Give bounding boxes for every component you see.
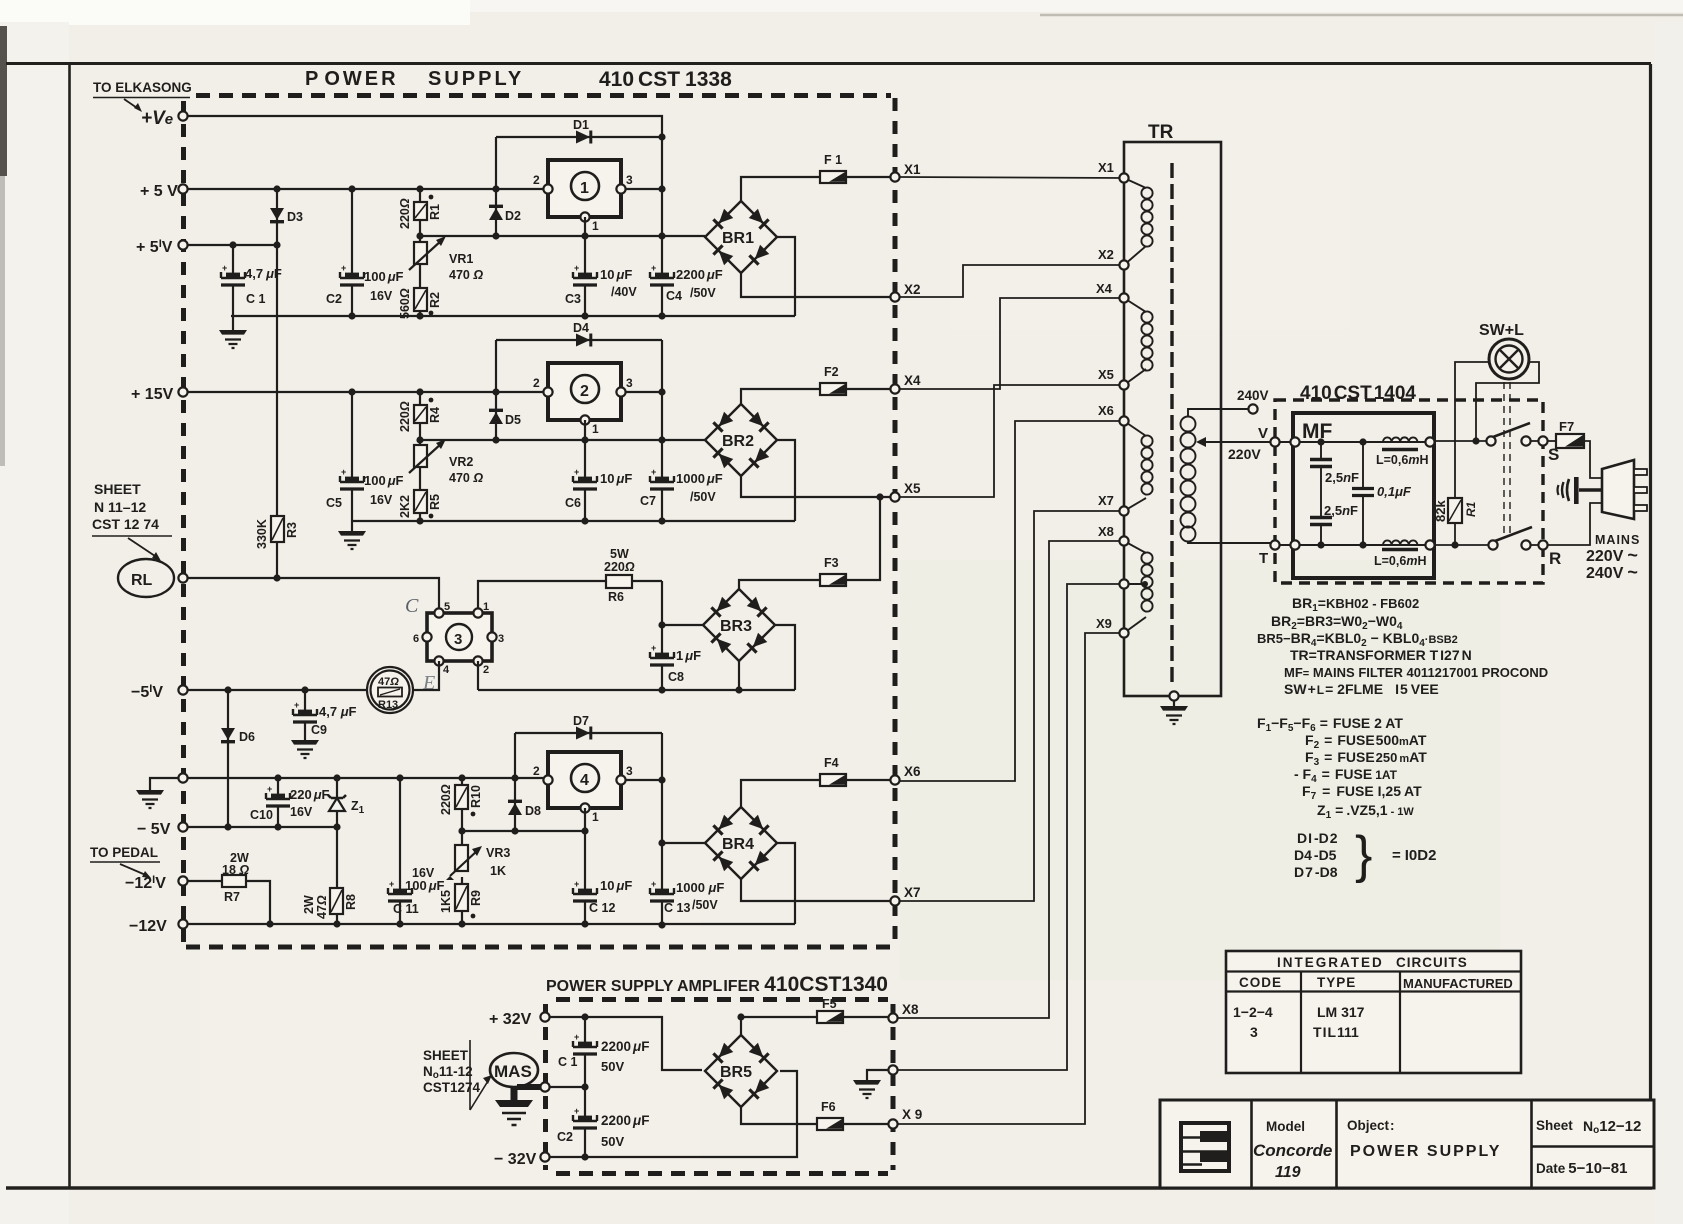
svg-text:220Ω: 220Ω (398, 401, 412, 432)
svg-text:4: 4 (580, 772, 589, 789)
node MAS (490, 1053, 550, 1125)
svg-text:4: 4 (443, 664, 450, 676)
svg-text:1K5: 1K5 (439, 890, 453, 913)
svg-text:R6: R6 (608, 590, 624, 604)
svg-text:2,5nF: 2,5nF (1324, 503, 1358, 518)
node V (1228, 425, 1280, 462)
svg-text:R2: R2 (428, 292, 442, 308)
svg-text:−12V: −12V (129, 918, 167, 935)
svg-text:TR: TR (1148, 122, 1174, 143)
svg-text:BR2: BR2 (722, 433, 754, 450)
wire BR3 DC- to rail (775, 625, 795, 690)
title block (1160, 1100, 1654, 1188)
wire BR3 DC+ stub (662, 624, 703, 626)
svg-text:X2: X2 (1098, 247, 1114, 262)
svg-text:C 1: C 1 (558, 1055, 578, 1069)
svg-text:CIRCUITS: CIRCUITS (1396, 955, 1468, 970)
svg-text:1000 μF: 1000 μF (676, 880, 724, 895)
wire D8 branch x515 (514, 733, 516, 831)
svg-text:F7: F7 (1559, 419, 1574, 434)
capacitor C8 (650, 643, 701, 684)
scan dark strip top-left (0, 26, 7, 176)
wire BR2 AC1 to F2 (741, 389, 895, 404)
node T (1259, 540, 1280, 567)
terminal X6 (890, 764, 921, 785)
svg-text:5: 5 (444, 601, 450, 613)
fuse F2 (820, 365, 846, 395)
TR winding W2 (1124, 298, 1153, 385)
svg-text:D4: D4 (573, 321, 589, 335)
svg-text:R4: R4 (428, 407, 442, 423)
svg-text:10μF: 10μF (600, 878, 632, 893)
svg-text:18 Ω: 18 Ω (222, 863, 249, 877)
svg-text:1μF: 1μF (676, 648, 701, 663)
plug earth lead (1558, 477, 1603, 504)
wire BR4 DC- to rail (777, 843, 795, 924)
svg-text:82k: 82k (1433, 500, 1448, 522)
wire X8 to TR (898, 541, 1124, 1018)
wire D4 bypass line (496, 339, 662, 341)
svg-text:C10: C10 (250, 808, 273, 822)
wire X6 to TR (900, 421, 1124, 781)
svg-text:C2: C2 (557, 1130, 573, 1144)
svg-text:560Ω: 560Ω (398, 288, 412, 319)
svg-text:TR=TRANSFORMER TI27N: TR=TRANSFORMER TI27N (1290, 647, 1472, 663)
resistor R10 220R (439, 778, 483, 831)
svg-text:100μF: 100μF (364, 473, 404, 488)
wire raw vertical x662 row4 (661, 733, 663, 925)
wire rail row2 (352, 520, 795, 522)
svg-text:16V: 16V (290, 805, 313, 819)
svg-text:D7: D7 (573, 714, 589, 728)
wire mid line (550, 1086, 585, 1088)
bridge BR5 (705, 1035, 777, 1107)
svg-text:C9: C9 (311, 723, 327, 737)
MF terminals (1290, 437, 1434, 549)
svg-text:1−2−4: 1−2−4 (1233, 1004, 1273, 1020)
resistor R1 82k (1433, 498, 1478, 545)
junction dots row1 (229, 133, 665, 319)
junction dots row3 (273, 574, 742, 693)
svg-text:CST 12 74: CST 12 74 (92, 516, 159, 532)
svg-text:Date5−10−81: Date5−10−81 (1536, 1160, 1628, 1177)
wire BR1 AC1 to F1 (741, 177, 895, 201)
ground terminal of main box (136, 773, 188, 808)
svg-text:D7-D8: D7-D8 (1294, 864, 1338, 880)
capacitor C5 (326, 392, 404, 531)
wire D7 bypass line (515, 732, 662, 734)
inductor L=0,6mH lower (1374, 540, 1426, 568)
node -12'V (125, 874, 188, 892)
svg-text:10μF: 10μF (600, 267, 632, 282)
wire BR1 DC- to rail (777, 237, 795, 316)
svg-text:X8: X8 (1098, 524, 1114, 539)
notes diode equivalence (1294, 826, 1436, 884)
svg-text:F5: F5 (822, 997, 837, 1011)
wire RL line (188, 578, 439, 613)
svg-text:+ 5IV: + 5IV (136, 238, 173, 256)
resistor R2 560R (398, 288, 442, 319)
svg-text:F2: F2 (824, 365, 839, 379)
resistor R9 1K5 (439, 884, 483, 924)
wire reg4 pin1 riser + C12 (584, 808, 586, 925)
diode D7 (573, 714, 592, 740)
svg-text:F6: F6 (821, 1100, 836, 1114)
svg-text:X 9: X 9 (902, 1107, 922, 1122)
svg-text:D6: D6 (239, 730, 255, 744)
terminal X8 (888, 1002, 919, 1023)
fuse F4 (820, 756, 846, 786)
svg-text:− 5V: − 5V (137, 821, 171, 838)
wire lamp left lead to R1 (1455, 362, 1490, 498)
junction dots row4 (224, 686, 665, 928)
TR bottom terminal and ground (1160, 691, 1188, 724)
svg-text:1: 1 (592, 810, 599, 824)
svg-text:X6: X6 (904, 764, 921, 779)
svg-text:R7: R7 (224, 890, 240, 904)
label TO PEDAL (90, 845, 160, 878)
diode D8 (508, 800, 541, 818)
svg-text:DI-D2: DI-D2 (1297, 830, 1338, 846)
svg-text:POWER SUPPLY: POWER SUPPLY (1350, 1143, 1501, 1160)
wire adj mid row4 (462, 830, 585, 832)
wire BR4 AC1 to F4 (741, 780, 895, 807)
node +15V (131, 386, 188, 403)
svg-text:X7: X7 (1098, 493, 1114, 508)
wire D2 branch vertical x496 (495, 137, 497, 236)
svg-text:2: 2 (580, 383, 589, 400)
svg-text:+ 15V: + 15V (131, 386, 174, 403)
wire reg3 pin2 riser (477, 661, 479, 690)
svg-text:−12IV: −12IV (125, 874, 166, 892)
wire -5V line (188, 826, 337, 828)
svg-text:}: } (1355, 826, 1372, 884)
bridge BR4 (705, 807, 777, 879)
label TO ELKASONG (93, 80, 192, 112)
svg-text:F 1: F 1 (824, 153, 842, 167)
wire primary top to 240V stub (1188, 409, 1249, 417)
svg-text:D4-D5: D4-D5 (1294, 847, 1337, 863)
svg-text:1: 1 (592, 422, 599, 436)
svg-text:− 32V: − 32V (494, 1151, 537, 1168)
node S (1538, 436, 1559, 464)
svg-text:TYPE: TYPE (1317, 975, 1356, 990)
svg-text:VR3: VR3 (486, 846, 510, 860)
node +5'V (136, 238, 188, 256)
svg-text:TO PEDAL: TO PEDAL (90, 845, 158, 860)
svg-text:C 13: C 13 (664, 901, 690, 915)
capacitor C9 (293, 690, 357, 740)
svg-text:C: C (405, 595, 419, 617)
svg-text:2W: 2W (302, 895, 316, 914)
title block texts (1253, 1118, 1641, 1181)
wire reg2 pin1 riser (584, 420, 586, 440)
node +32V (489, 1011, 550, 1028)
svg-text:R: R (1549, 549, 1561, 568)
wire +5V rail (188, 188, 548, 190)
svg-text:47Ω: 47Ω (378, 676, 399, 688)
switch bottom pole (1488, 527, 1539, 550)
svg-text:X7: X7 (904, 885, 921, 900)
svg-text:410CST1338: 410CST1338 (599, 68, 732, 91)
wire reg1 pin1 riser (584, 217, 586, 236)
wire X5 to TR (900, 385, 1124, 497)
switch coupling dashed link (1504, 382, 1510, 538)
faint scan line top (1040, 14, 1683, 17)
svg-text:No11-12: No11-12 (423, 1064, 473, 1081)
svg-text:X2: X2 (904, 282, 921, 297)
svg-text:X1: X1 (904, 162, 921, 177)
resistor R8 47R 2W (302, 888, 358, 919)
wire MF out to switch top (1434, 440, 1486, 442)
wire primary bottom to T (1188, 541, 1271, 543)
sheet reference SHEET N 11-12 CST1274 (92, 481, 172, 561)
filter MF box (1293, 413, 1434, 578)
diode D1 (573, 118, 592, 144)
TR winding W1 (1124, 178, 1153, 265)
svg-text:3: 3 (454, 631, 462, 648)
svg-text:D3: D3 (287, 210, 303, 224)
svg-text:D1: D1 (573, 118, 589, 132)
capacitor C13 (650, 879, 724, 915)
wire X9 to TR (898, 633, 1124, 1124)
wire V line inside MF (1279, 441, 1432, 443)
terminal X9 (888, 1107, 922, 1129)
svg-text:3: 3 (1250, 1024, 1258, 1040)
capacitor C1 (amp) (558, 1017, 649, 1157)
amplifier dashed box 410CST1340 (546, 1000, 894, 1174)
svg-text:6: 6 (413, 633, 419, 645)
svg-text:C 12: C 12 (589, 901, 615, 915)
junction dots amp (581, 1013, 744, 1160)
svg-text:220Ω: 220Ω (439, 784, 453, 815)
svg-text:MF= MAINS FILTER 4011217001: MF= MAINS FILTER 4011217001 PROCOND (1284, 665, 1548, 680)
svg-text:2,5nF: 2,5nF (1325, 470, 1359, 485)
svg-text:MF: MF (1302, 420, 1332, 443)
regulator U4 LM317 (533, 752, 633, 824)
wire +15V rail (188, 391, 548, 393)
diode D4 (573, 321, 592, 347)
wire X4 to TR (900, 298, 1124, 389)
svg-text:=I0D2: =I0D2 (1392, 847, 1436, 864)
svg-text:Model: Model (1266, 1119, 1305, 1134)
svg-text:0,1μF: 0,1μF (1377, 484, 1412, 499)
svg-text:2200μF: 2200μF (676, 267, 723, 282)
svg-text:2: 2 (533, 764, 540, 778)
svg-text:1: 1 (580, 180, 589, 197)
terminal X2 (890, 282, 920, 302)
regulator U2 LM317 (533, 363, 633, 436)
svg-text:SHEET: SHEET (423, 1048, 469, 1063)
svg-text:C 1: C 1 (246, 292, 266, 306)
wire rail row1 (231, 315, 795, 317)
capacitor C10 (250, 778, 330, 827)
fuse F5 (817, 997, 843, 1023)
title POWER SUPPLY 410 CST 1338 (305, 68, 732, 91)
svg-text:220V: 220V (1228, 446, 1261, 462)
svg-text:50V: 50V (601, 1134, 624, 1149)
svg-text:R10: R10 (469, 785, 483, 808)
wire 0V line row4 (188, 777, 548, 779)
node -5'V (131, 683, 188, 701)
svg-text:+Ve: +Ve (141, 108, 173, 129)
svg-text:−5IV: −5IV (131, 683, 163, 701)
MF dots (1317, 438, 1366, 548)
svg-text:3: 3 (498, 633, 504, 645)
svg-text:1000μF: 1000μF (676, 471, 723, 486)
svg-text:D8: D8 (525, 804, 541, 818)
svg-text:N 11–12: N 11–12 (94, 499, 146, 515)
wire reg3 pin1 to R6 (478, 581, 662, 613)
regulator U1 LM317 (533, 160, 633, 233)
switch top pole (1486, 423, 1539, 446)
svg-text:X1: X1 (1098, 160, 1114, 175)
wire adj mid row1 (420, 235, 705, 237)
wire BR4 DC+ stub (662, 842, 705, 844)
svg-text:C 11: C 11 (393, 902, 419, 916)
wire BR5 AC2 to F6/X9 (741, 1107, 893, 1124)
wire adj mid row2 (420, 439, 705, 441)
svg-text:119: 119 (1275, 1164, 1301, 1181)
node RL relay (118, 559, 188, 597)
svg-text:SUPPLY: SUPPLY (428, 68, 524, 90)
svg-text:VR1: VR1 (449, 252, 473, 266)
capacitor C4 (650, 263, 723, 303)
svg-text:3: 3 (626, 376, 633, 390)
svg-text:BR4: BR4 (722, 836, 754, 853)
svg-text:470 Ω: 470 Ω (449, 471, 483, 485)
resistor R4 220R (398, 392, 442, 432)
terminal X5 (890, 481, 921, 502)
wire R to plug bottom pin (1548, 503, 1602, 545)
node +5V (140, 183, 188, 200)
wire raw DC vertical x662 row1 (661, 137, 663, 316)
svg-text:L=0,6mH: L=0,6mH (1376, 453, 1428, 467)
resistor R3 330K feed (255, 245, 299, 578)
TR terminals (1096, 160, 1129, 638)
junction dots row2 (348, 388, 883, 524)
svg-text:47Ω: 47Ω (315, 895, 329, 919)
svg-text:3: 3 (626, 764, 633, 778)
svg-text:F3: F3 (824, 556, 839, 570)
svg-text:No12−12: No12−12 (1583, 1118, 1641, 1136)
node R (1538, 540, 1561, 568)
wire +5'V line (188, 244, 277, 246)
wire D5 branch x496 (495, 340, 497, 440)
terminal X4 (890, 373, 921, 394)
page frame (6, 62, 1651, 65)
svg-text:X8: X8 (902, 1002, 919, 1017)
svg-text:4,7 μF: 4,7 μF (319, 704, 357, 719)
wire F7 to plug top pin (1584, 441, 1602, 478)
svg-text:240V: 240V (1237, 388, 1269, 403)
svg-text:/50V: /50V (692, 898, 718, 912)
svg-text:X4: X4 (1096, 281, 1113, 296)
ground below C1 (219, 330, 247, 348)
svg-text:C7: C7 (640, 494, 656, 508)
svg-text:C3: C3 (565, 292, 581, 306)
fuse F6 (817, 1100, 843, 1130)
diode D5 (489, 409, 521, 427)
capacitor C11 (388, 778, 445, 925)
svg-text:X5: X5 (904, 481, 921, 496)
svg-text:10μF: 10μF (600, 471, 632, 486)
TR core (1170, 163, 1173, 683)
integrated circuits table (1226, 951, 1521, 1073)
wire BR3 AC1 to F3 (739, 497, 880, 589)
svg-text:D5: D5 (505, 413, 521, 427)
svg-text:R13: R13 (378, 699, 398, 711)
node -12V (129, 918, 188, 935)
capacitor C6 (565, 440, 632, 521)
wire BR1 AC2 to X2 (741, 273, 895, 297)
wire -5'V line (188, 689, 368, 691)
wire raw vertical x662 row3 (661, 581, 663, 690)
svg-text:R8: R8 (344, 894, 358, 910)
svg-text:2K2: 2K2 (398, 495, 412, 518)
svg-text:1: 1 (483, 601, 489, 613)
svg-text:R5: R5 (428, 494, 442, 510)
svg-text:RL: RL (131, 572, 153, 589)
main supply dashed border 410CST1338 (184, 96, 896, 948)
terminal X7 (890, 885, 920, 906)
wire BR3 AC2 riser (738, 661, 740, 690)
svg-text:SHEET: SHEET (94, 481, 141, 497)
wire +Ve to raw DC vertical (188, 116, 662, 137)
capacitor 2,5nF lower (1310, 503, 1358, 545)
svg-text:2: 2 (483, 664, 489, 676)
svg-text:BR5: BR5 (720, 1064, 752, 1081)
svg-text:330K: 330K (255, 519, 269, 549)
label MAINS (1586, 533, 1640, 582)
diode D2 (489, 205, 521, 223)
svg-text:SW+L= 2FLMEI5VEE: SW+L= 2FLMEI5VEE (1284, 681, 1439, 697)
capacitor C2 (326, 189, 404, 316)
wire +32V line (550, 1017, 702, 1070)
terminal X1 (890, 162, 921, 182)
svg-text:R9: R9 (469, 890, 483, 906)
svg-text:Concorde: Concorde (1253, 1141, 1332, 1160)
svg-text:C8: C8 (668, 670, 684, 684)
svg-text:16V: 16V (370, 289, 393, 303)
capacitor C2 (amp) (557, 1106, 649, 1149)
inductor L=0,6mH upper (1376, 437, 1428, 467)
ground below C5 (338, 531, 366, 549)
capacitor 0,1uF (1352, 442, 1412, 545)
fuse F7 (1548, 419, 1584, 448)
svg-text:T: T (1259, 550, 1268, 567)
svg-text:LM 317: LM 317 (1317, 1004, 1365, 1020)
capacitor C7 (640, 467, 723, 508)
wire 220V tap to V (1201, 441, 1271, 443)
wire T line inside MF (1279, 544, 1432, 546)
svg-text:R3: R3 (285, 522, 299, 538)
wire BR2 AC2 to X5 (741, 476, 895, 497)
svg-text:220Ω: 220Ω (604, 560, 635, 574)
wire D1 bypass line (496, 136, 662, 138)
svg-text:2: 2 (533, 173, 540, 187)
bridge BR2 (705, 404, 777, 476)
resistor R13 47R circled (367, 667, 413, 713)
svg-text:+ 5 V: + 5 V (140, 183, 178, 200)
svg-text:2200μF: 2200μF (601, 1113, 649, 1128)
svg-text:MAS: MAS (494, 1062, 532, 1081)
svg-text:+ 32V: + 32V (489, 1011, 532, 1028)
TR winding W4 with centre tap (1124, 541, 1153, 633)
svg-text:BR3: BR3 (720, 618, 752, 635)
wire X7 to TR (900, 511, 1124, 901)
wire reg2 pin3 (621, 391, 662, 393)
